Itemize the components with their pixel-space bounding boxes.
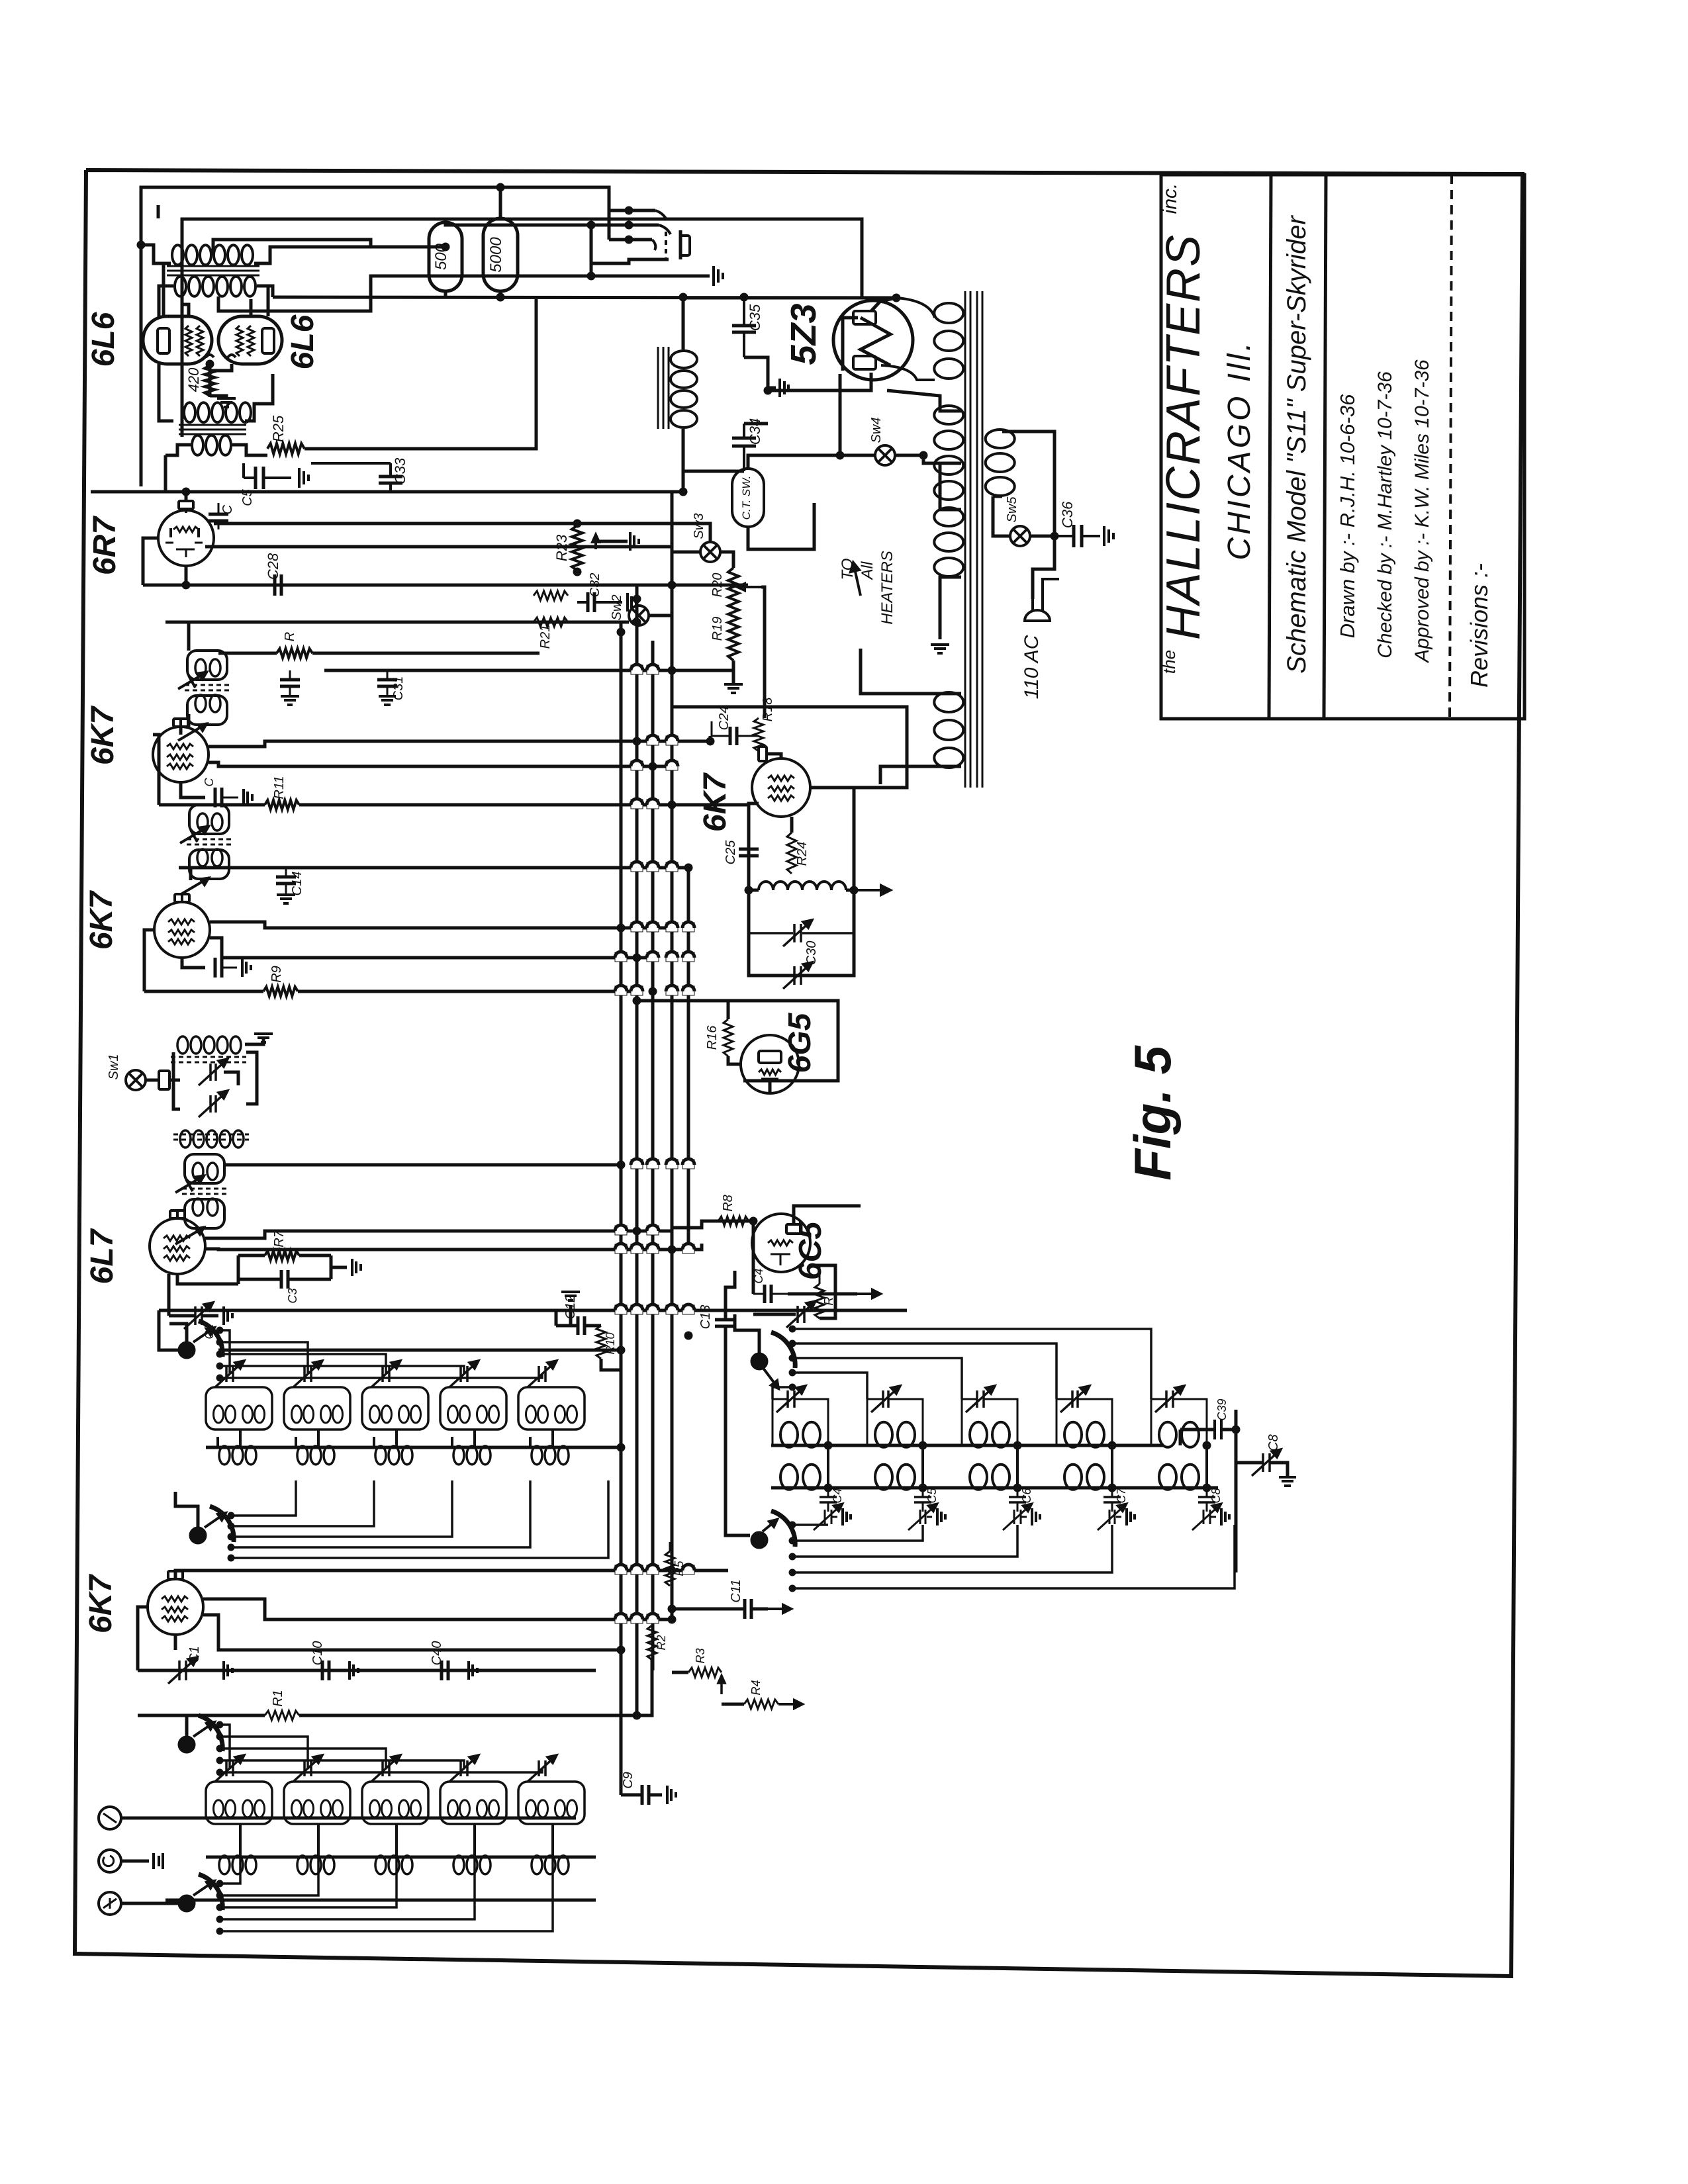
ground osc 5 [1211, 1508, 1229, 1525]
switch RF primary contacts [228, 1512, 234, 1561]
capacitor C14 cluster [276, 868, 296, 903]
ground cathode [217, 398, 236, 407]
capacitor C25 [739, 833, 759, 874]
resistor R11 [265, 800, 299, 809]
svg-text:Fig. 5: Fig. 5 [1123, 1045, 1182, 1181]
svg-text:R23: R23 [553, 534, 570, 561]
crystal filter top core [171, 1057, 246, 1062]
wiper arrow RF interstage [193, 1328, 214, 1342]
filter choke winding [671, 351, 697, 428]
tube label 6R7 [87, 516, 122, 575]
junction PS [764, 387, 772, 394]
label C27 [220, 504, 235, 514]
label R16 [705, 1025, 720, 1050]
transformer T6 winding 3 [934, 508, 963, 576]
RF interstage coil L14 coil A [448, 1406, 470, 1423]
wire T4 sec right [232, 445, 267, 455]
wire C35 bottom [744, 357, 768, 390]
capacitor C3 [238, 1270, 331, 1289]
svg-text:R3: R3 [694, 1648, 707, 1663]
wire B+ takeoff line [679, 296, 896, 300]
wire R24 top [790, 817, 794, 833]
svg-text:C7: C7 [1115, 1488, 1128, 1504]
bus vertical 5 [687, 868, 690, 1250]
label All [859, 561, 876, 580]
RF interstage coil L13 coil A [370, 1406, 392, 1423]
tube V5 6K7 envelope [153, 727, 209, 782]
tube label 6K7 [698, 772, 733, 832]
variable capacitor C30b [783, 962, 812, 989]
ground R7 [331, 1259, 361, 1276]
osc trimmer C15 [871, 1386, 900, 1412]
IF transformer T3 trimmer bottom [178, 723, 207, 741]
label C24 [717, 706, 731, 731]
transformer T5 secondary [175, 277, 256, 296]
transformer T6 primary [986, 430, 1015, 496]
tube V7 cathode [759, 1069, 781, 1079]
label C41 [752, 1268, 765, 1283]
title text: inc. [1159, 183, 1181, 214]
switch ant fan contacts [216, 1721, 223, 1776]
wire Sw5 to plug [1030, 535, 1055, 538]
wire V10 grid lead [250, 299, 253, 316]
wiper arrow ant lower [193, 1881, 214, 1895]
osc switch rotor upper [751, 1332, 795, 1370]
crystal holder [159, 1071, 169, 1089]
IF transformer T1 secondary capsule [185, 1199, 224, 1228]
resistor R3 [672, 1668, 722, 1677]
antenna interstage coil L4 box [440, 1782, 506, 1824]
transformer T6 HV winding [934, 303, 963, 379]
antenna interstage coil L3 box [362, 1782, 428, 1824]
IF transformer T2 primary loops [197, 813, 222, 831]
resistor R17 on line [277, 649, 312, 658]
wire B+ long line [273, 297, 896, 298]
tube V6 cathode [176, 549, 195, 557]
junction dot AVC [182, 581, 190, 589]
ground C15 [244, 789, 252, 806]
wire bias line [164, 455, 167, 492]
title text: HALLICRAFTERS [1157, 234, 1210, 640]
label C14 [290, 872, 305, 896]
label osc C6 [1020, 1488, 1033, 1504]
wire w3 top [940, 463, 961, 510]
svg-text:6L7: 6L7 [85, 1228, 120, 1284]
label C2 [203, 1324, 216, 1339]
junction C11 [668, 1605, 676, 1613]
svg-text:CHICAGO Ill.: CHICAGO Ill. [1222, 340, 1257, 560]
resistor R26 cathode 420 [205, 365, 215, 396]
wire osc right vertical [1235, 1410, 1238, 1572]
IF transformer T1 primary loops [193, 1163, 218, 1180]
wire V1 left loop [138, 1607, 148, 1670]
svg-text:HALLICRAFTERS: HALLICRAFTERS [1157, 234, 1210, 640]
svg-text:R24: R24 [795, 842, 810, 866]
label C12 [563, 1295, 578, 1320]
osc padder C7 [1103, 1488, 1121, 1502]
svg-text:C: C [203, 778, 216, 787]
wire choke top [682, 298, 685, 349]
label 110AC [1021, 635, 1043, 699]
tube V7 target [759, 1051, 781, 1063]
svg-text:6K7: 6K7 [85, 705, 120, 765]
IF transformer T3 secondary capsule [187, 696, 227, 725]
wire 5Z3 plate bottom [768, 373, 871, 390]
label R26 420 [185, 367, 202, 392]
svg-text:C11: C11 [729, 1579, 743, 1602]
osc lower fan [792, 1525, 1235, 1588]
wire C34 top lead [744, 422, 768, 426]
svg-text:C8: C8 [1209, 1488, 1223, 1503]
tube label 6L6 [285, 314, 320, 369]
svg-text:6K7: 6K7 [84, 890, 119, 950]
antenna series cap [154, 1853, 163, 1869]
antenna trim C 5 trimmer [528, 1755, 557, 1782]
wire C13 bottom lead [726, 1326, 750, 1535]
label C36 [1059, 501, 1076, 528]
label C11 [729, 1579, 743, 1602]
wire IFT2 bottom [189, 868, 193, 880]
osc trimmer leads 5 [1151, 1399, 1207, 1445]
RF interstage C trim 2 trimmer [293, 1361, 322, 1387]
tube V4 6K7 envelope [154, 902, 210, 958]
osc trimmer C17 [1060, 1386, 1090, 1412]
tube V4 top cap [175, 894, 189, 902]
antenna interstage coil L1 box [206, 1782, 272, 1824]
osc coil lower L-29 [1064, 1465, 1104, 1490]
wire R25 right [305, 299, 536, 449]
wire row A box drops [240, 1430, 553, 1447]
svg-text:Sw5: Sw5 [1005, 496, 1019, 523]
IF transformer T2 trimmer bottom [180, 878, 209, 895]
osc switch rotor lower [751, 1511, 795, 1549]
switch Sw1 lamp [126, 1070, 146, 1090]
resistor R22 [534, 591, 568, 600]
wiper arrow ant upper [193, 1722, 214, 1737]
svg-text:C9: C9 [621, 1772, 635, 1789]
wire V7 bottom [769, 1081, 772, 1093]
osc padder trim 3 [1003, 1503, 1032, 1530]
osc padder trim 1 [814, 1503, 843, 1530]
wire V3 cath [177, 1274, 238, 1284]
svg-text:Drawn by :- R.J.H. 10-6-36: Drawn by :- R.J.H. 10-6-36 [1336, 394, 1359, 638]
wire V3 right leads [205, 1231, 672, 1238]
capacitor C13 [715, 1320, 736, 1326]
RF interstage coil L11 box [206, 1387, 272, 1430]
IF transformer T1 primary capsule [185, 1154, 224, 1183]
wire heater bottom [880, 766, 961, 784]
tube V11 5Z3 envelope [833, 300, 913, 380]
svg-text:C5: C5 [925, 1488, 939, 1504]
wire mixer line1 [218, 1349, 621, 1352]
svg-text:R21: R21 [538, 625, 553, 649]
svg-text:inc.: inc. [1159, 183, 1181, 214]
wire 6R7 out line1 [214, 523, 710, 542]
wire C39 leads [1180, 1426, 1240, 1433]
jack sleeve line [591, 259, 669, 276]
label osc C8 [1209, 1488, 1223, 1503]
svg-text:C4: C4 [831, 1488, 844, 1503]
transformer T6 core [965, 291, 982, 788]
antenna interstage coil L4 coil A [448, 1800, 470, 1817]
wire IFT2 line [179, 866, 688, 870]
label Sw1 [107, 1054, 121, 1080]
switch Sw4 [875, 445, 895, 465]
tube V2 grid [768, 1240, 793, 1246]
switch Sw5 [1010, 526, 1030, 546]
wire 6R7 plate top [185, 492, 188, 500]
wire V1 line1 [175, 1569, 728, 1572]
label R24 [795, 842, 810, 866]
RF interstage coil L14 coil B [477, 1406, 499, 1423]
svg-text:C28: C28 [265, 553, 281, 580]
wire 6L6 grid loop [182, 219, 862, 437]
tube V5 top cap [173, 719, 188, 727]
label C3 [286, 1288, 299, 1303]
svg-text:C13: C13 [698, 1305, 713, 1330]
ground R23 [630, 532, 639, 551]
label C8 [1266, 1434, 1281, 1451]
antenna primary coil L10 [532, 1856, 569, 1874]
ground C1 [211, 1661, 232, 1680]
capacitor C34 [732, 424, 756, 471]
svg-text:R11: R11 [272, 776, 287, 799]
capacitor C11 [672, 1599, 768, 1619]
tube V1 grids [162, 1596, 188, 1621]
wire bus1 top [620, 622, 623, 632]
wire V5 plate [179, 727, 183, 735]
wire 5Z3 plate top [871, 294, 900, 311]
capacitor C2 trimmer [184, 1302, 213, 1329]
capacitor C16 [215, 958, 237, 978]
label CT.SW [740, 476, 753, 520]
capacitor C31 cluster [377, 670, 397, 705]
jack contact spring 1 [609, 206, 666, 218]
label 500 [432, 243, 450, 270]
switch rotor ant upper [178, 1715, 222, 1753]
wire tuning cap line [138, 1669, 596, 1672]
resistor R24 [787, 833, 796, 874]
arrow R3 up [718, 1676, 725, 1694]
junction CT [836, 451, 844, 459]
wire bias stub [242, 463, 245, 478]
label R21 [538, 625, 553, 649]
label R1 [271, 1690, 285, 1707]
label R18 [761, 698, 775, 722]
svg-text:420: 420 [185, 367, 202, 392]
capacitor C36 [1055, 525, 1100, 547]
label 5000 [487, 237, 505, 273]
bus vertical 3 [651, 641, 655, 1670]
jack contact spring 3 [609, 236, 655, 250]
RF interstage coil L14 box [440, 1387, 506, 1430]
label osc C5 [925, 1488, 939, 1504]
antenna interstage coil L4 coil B [477, 1800, 499, 1817]
transformer T5 core [167, 266, 259, 275]
wire T4 pri right to loop [245, 374, 273, 421]
wire rect fil top [887, 390, 961, 411]
osc padder C5 [914, 1488, 931, 1502]
wire crystal right [169, 1079, 180, 1082]
osc trimmer C14 [776, 1386, 806, 1412]
wire V8 box right [749, 788, 854, 976]
ground C9 [667, 1786, 676, 1804]
svg-text:C4: C4 [752, 1268, 765, 1283]
tube V2 plate rect [786, 1224, 801, 1234]
bus vertical 4 [671, 552, 674, 1619]
svg-text:C36: C36 [1059, 501, 1076, 528]
wire ant row D bus [206, 1856, 596, 1859]
transformer T5 primary [172, 245, 253, 265]
osc upper common line [771, 1444, 1164, 1447]
resistor R6 [815, 1265, 824, 1318]
wire 500 bottom [444, 291, 447, 297]
wire 6R7 left drop [143, 538, 158, 585]
svg-text:6K7: 6K7 [83, 1574, 118, 1633]
svg-text:R: R [283, 632, 297, 641]
label C25 [724, 840, 738, 865]
capacitor C40 cluster [442, 1661, 477, 1680]
osc hook vertical 1 [824, 1441, 832, 1492]
osc padder trim 2 [908, 1503, 937, 1530]
tube V5 grids [167, 744, 193, 769]
osc hook vertical 3 [1013, 1441, 1021, 1492]
wire row C box drops [240, 1824, 553, 1857]
tube V3 grids [164, 1236, 190, 1261]
wire R19 bottom [732, 660, 735, 684]
crystal filter top coil [177, 1036, 241, 1054]
wire 5Z3 anode stub [843, 318, 858, 371]
antenna interstage coil L2 coil B [321, 1800, 343, 1817]
svg-text:C3: C3 [286, 1288, 299, 1303]
wire terminal A1 line [121, 1817, 576, 1820]
resistor R2 [647, 1625, 657, 1660]
wire C8 leads [1236, 1463, 1296, 1486]
switch ant fan wires [220, 1725, 542, 1772]
wire RF bank top line [159, 1309, 907, 1312]
wire 6G5 feed from bus [637, 999, 676, 1003]
tube V4 grids [168, 919, 195, 944]
jack insulator dashed [665, 232, 667, 261]
RF interstage coil L15 coil A [526, 1406, 548, 1423]
svg-text:C33: C33 [392, 457, 408, 484]
wire R16 bottom [728, 1056, 742, 1064]
crystal filter gnd tap [245, 1039, 263, 1044]
wire V4 cath [182, 958, 205, 968]
title block divider col1/col2 [1269, 175, 1271, 719]
RF primary coil L17 [297, 1446, 334, 1465]
wire V4 left loop [144, 930, 154, 991]
wire IFT1 line [226, 1163, 621, 1167]
wire osc rotor feed [735, 1314, 759, 1353]
antenna interstage coil L3 coil B [399, 1800, 421, 1817]
wire T5 primary left lead [141, 245, 171, 263]
IF transformer T2 trimmer top [180, 826, 209, 843]
label C34 [747, 418, 763, 445]
junction R8 [749, 1217, 757, 1225]
osc trimmer C18 [1155, 1386, 1184, 1412]
wire 5Z3 HV link [896, 298, 935, 318]
arrow C11 [768, 1605, 791, 1613]
svg-text:C14: C14 [290, 872, 305, 896]
wire CT vertical [839, 374, 842, 455]
wire T5 primary right lead [254, 247, 445, 263]
wire heater top [861, 649, 961, 694]
RF primary coil L18 [375, 1446, 412, 1465]
wire Sw3 left [672, 551, 700, 554]
svg-text:Sw2: Sw2 [610, 595, 624, 621]
wire C34 junction [683, 470, 744, 473]
RF interstage coil L13 coil B [399, 1406, 421, 1423]
tube V6 top cap [179, 501, 193, 513]
label C32 [588, 573, 602, 598]
capacitor C15 [215, 788, 238, 807]
arrow 6C5 gnd [835, 1290, 880, 1298]
svg-text:Sw3: Sw3 [692, 514, 706, 539]
antenna trim C 1 trimmer [215, 1755, 244, 1782]
label R6 [822, 1297, 835, 1306]
svg-text:C25: C25 [724, 840, 738, 865]
label C31 [391, 676, 406, 701]
wire V5 cath cluster [181, 782, 205, 797]
osc trimmer leads 1 [773, 1399, 828, 1445]
terminal A1 [99, 1807, 121, 1829]
resistor R7 [238, 1251, 331, 1260]
junction 6G5 feed [633, 997, 641, 1005]
svg-text:C8: C8 [1266, 1434, 1281, 1451]
label C13 [698, 1305, 713, 1330]
svg-text:C30: C30 [804, 941, 819, 966]
label TO [839, 559, 857, 580]
pot wiper arrow R23 [592, 535, 599, 549]
antenna primary coil L6 [219, 1856, 256, 1874]
svg-text:6L6: 6L6 [86, 312, 121, 367]
svg-text:R25: R25 [270, 415, 287, 442]
terminal G [99, 1850, 121, 1872]
antenna trim C 2 trimmer [293, 1755, 322, 1782]
IF transformer T1 trimmer bottom [175, 1227, 205, 1244]
wire plug stem [1033, 536, 1059, 599]
crystal filter bottom coil [180, 1130, 244, 1148]
junction B+ C35 [679, 293, 748, 301]
RF interstage coil L12 box [284, 1387, 350, 1430]
capacitor C22 cluster [280, 670, 300, 705]
wire V10 cathode lead [210, 364, 232, 371]
wire IFT3 top left [187, 622, 191, 651]
wire B+ bus main [91, 490, 683, 494]
svg-text:6K7: 6K7 [698, 772, 733, 832]
wire V1 cath [174, 1635, 177, 1650]
arrow to all heaters [851, 563, 861, 596]
capacitor C bias [244, 467, 291, 489]
capacitor C33 on B+ [379, 463, 402, 492]
wire 6R7 out line2 [205, 545, 672, 549]
tube V1 6K7 envelope [148, 1579, 203, 1635]
wire inner top [157, 205, 160, 218]
osc coil lower L-28 [970, 1465, 1009, 1490]
title text: the [1159, 650, 1179, 674]
wire Sw5 left [993, 496, 1010, 536]
tube V9 grids [185, 326, 203, 356]
switch RF fan contacts [216, 1327, 223, 1381]
crystal filter cap mid1 [199, 1059, 228, 1085]
svg-text:All: All [859, 561, 876, 580]
svg-text:C31: C31 [391, 676, 406, 701]
RF interstage coil L11 coil B [243, 1406, 265, 1423]
wire T5 sec right lead [257, 286, 273, 297]
ground C16 [242, 958, 251, 977]
wire primary top [1002, 432, 1055, 533]
